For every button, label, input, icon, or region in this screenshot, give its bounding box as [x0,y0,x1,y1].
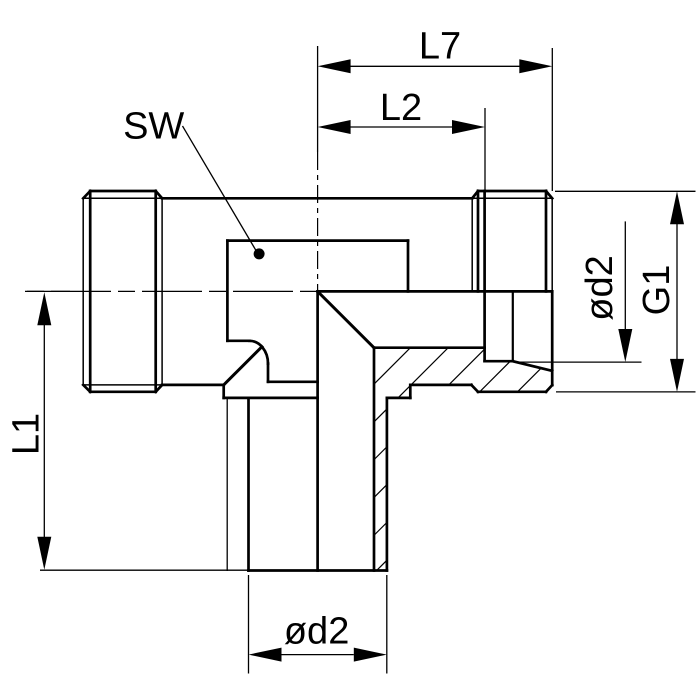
dimension ød2 (branch tube) [249,575,387,674]
section boundary and branch bore [224,291,553,570]
left thread outer face lines (thin) [83,198,162,385]
svg-text:G1: G1 [636,265,678,316]
right male stud port [471,191,552,392]
internal cone seat of right port [485,291,553,385]
dimension L2 [350,108,485,191]
dimension L7 [318,46,553,191]
section hatching (cut material, right half) [309,300,647,600]
left male thread [83,191,162,392]
right port outer face lines (thin) [472,198,552,291]
dimension ød2 (cone seat) [517,221,642,362]
vertical centerline [317,152,319,291]
dimension L1 [25,291,249,570]
svg-text:L7: L7 [419,26,461,68]
body outline [162,198,472,385]
dimension G1 [555,191,696,392]
SW label leader [123,106,265,260]
svg-text:L1: L1 [5,413,47,455]
svg-text:ød2: ød2 [579,255,621,320]
horizontal centerline [26,290,552,292]
hex SW flat [227,241,408,382]
svg-text:ød2: ød2 [284,610,349,652]
svg-text:SW: SW [123,106,184,148]
svg-text:L2: L2 [380,87,422,129]
branch collar and tube [224,385,411,571]
